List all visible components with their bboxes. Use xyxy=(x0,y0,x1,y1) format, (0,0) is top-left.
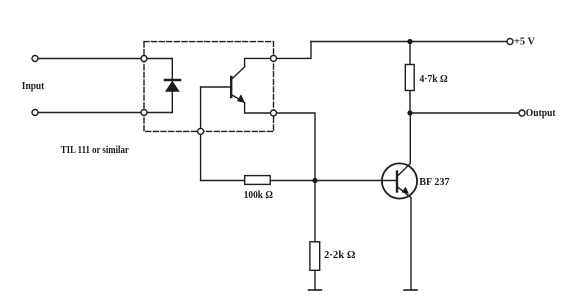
svg-text:Output: Output xyxy=(526,108,556,119)
svg-text:4·7k Ω: 4·7k Ω xyxy=(420,74,448,85)
junction node A xyxy=(312,178,317,183)
svg-text:Input: Input xyxy=(22,81,45,92)
ground bar left xyxy=(309,289,322,291)
svg-text:BF 237: BF 237 xyxy=(419,177,449,188)
terminal input bottom xyxy=(32,110,38,116)
phototransistor emitter wire with arrow xyxy=(231,94,273,113)
wire Q1 emitter with arrow xyxy=(397,187,411,291)
LED D1 (optocoupler emitter diode) xyxy=(165,80,180,92)
phototransistor base wire horizontal xyxy=(201,86,231,88)
phototransistor base bar xyxy=(230,77,232,97)
wire Q1 collector vertical xyxy=(397,113,410,177)
wire input top xyxy=(35,58,172,60)
optocoupler U1 dashed outline (TIL 111) xyxy=(144,42,274,132)
opto pin right top xyxy=(271,55,277,61)
junction top rail / 4.7k xyxy=(407,39,412,44)
wire node row (opto base - 100k - node A - Q1 base) xyxy=(201,180,397,182)
wire node A down to 2.2k and ground xyxy=(314,181,316,291)
opto pin left bottom xyxy=(141,110,147,116)
transistor Q1 BF 237 xyxy=(382,163,417,198)
svg-text:+5 V: +5 V xyxy=(514,37,535,48)
junction output node xyxy=(407,110,412,115)
wire opto collector to +5V rail xyxy=(274,42,312,59)
svg-text:2·2k Ω: 2·2k Ω xyxy=(324,250,356,261)
opto pin bottom (base) xyxy=(198,128,204,134)
phototransistor base wire vertical xyxy=(200,87,202,181)
opto pin left top xyxy=(141,56,147,62)
phototransistor collector wire xyxy=(231,58,273,79)
terminal +5V xyxy=(507,39,513,45)
terminal input top xyxy=(32,56,38,62)
resistor R2 100k xyxy=(245,176,271,185)
wire opto emitter to node A xyxy=(274,113,316,181)
resistor R3 2.2k xyxy=(310,242,320,270)
svg-text:TIL 111 or similar: TIL 111 or similar xyxy=(61,145,129,156)
wire +5V rail xyxy=(311,41,510,43)
resistor R1 4.7k xyxy=(405,65,414,91)
terminal Output xyxy=(519,110,525,116)
opto pin right bottom xyxy=(271,110,277,116)
wire input bottom xyxy=(35,112,172,114)
ground bar right xyxy=(404,289,417,291)
wire 4.7k branch xyxy=(409,42,411,114)
svg-text:100k Ω: 100k Ω xyxy=(244,190,273,201)
wire output xyxy=(410,112,522,114)
wire LED branch vertical xyxy=(171,59,173,113)
